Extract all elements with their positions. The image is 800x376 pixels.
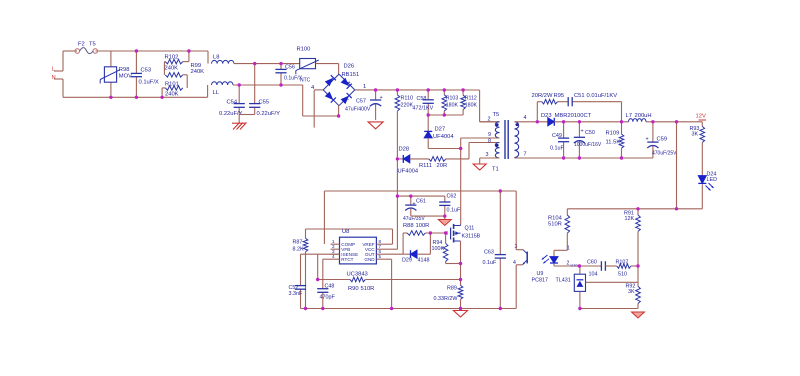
svg-text:0.01uF/1KV: 0.01uF/1KV (587, 93, 618, 99)
svg-text:1: 1 (567, 246, 570, 252)
svg-text:470pF: 470pF (320, 295, 336, 301)
svg-text:104: 104 (589, 272, 598, 278)
optocoupler light arrows (542, 255, 548, 260)
svg-text:UC3843: UC3843 (347, 272, 368, 278)
svg-text:L7: L7 (626, 113, 632, 119)
wire top AC line (63, 50, 77, 52)
wire LL output line (233, 84, 303, 86)
svg-text:C61: C61 (416, 199, 426, 205)
svg-text:0.22uF/Y: 0.22uF/Y (257, 111, 281, 117)
resistor R91 12K (637, 209, 639, 215)
svg-text:2: 2 (567, 261, 570, 267)
svg-text:GND: GND (364, 257, 375, 262)
svg-text:R103: R103 (446, 96, 459, 102)
varistor R98 MOV (110, 51, 112, 67)
wire opto collector (515, 191, 517, 250)
power ground (TL431/R92) (632, 312, 645, 318)
inductor LL (212, 82, 234, 85)
diode D27 UF4004 (clamp) (427, 115, 429, 131)
capacitor C51 0.01uF/1KV (snubber) (558, 101, 569, 103)
fuse F2 (75, 49, 80, 54)
svg-text:1000uF/16V: 1000uF/16V (574, 142, 602, 148)
svg-text:240K: 240K (165, 66, 179, 72)
resistor R88 100R (gate) (407, 231, 425, 236)
diode D29 4148 (gate speedup) (403, 253, 410, 255)
svg-text:5: 5 (379, 254, 382, 259)
svg-text:R107: R107 (616, 260, 629, 266)
wire bridge AC bottom (from LL) (302, 85, 304, 116)
svg-text:N: N (52, 75, 56, 81)
svg-text:-: - (348, 97, 350, 103)
thermistor R100 NTC (300, 59, 316, 69)
svg-text:U10: U10 (571, 264, 578, 268)
transformer core (504, 120, 506, 159)
wire ISENSE line with R90 (301, 253, 340, 255)
resistor R111 20R (429, 157, 446, 162)
svg-text:R112: R112 (465, 96, 477, 102)
svg-text:+: + (380, 95, 383, 101)
U8 pin stubs and numbers (331, 243, 340, 245)
svg-text:+: + (413, 202, 416, 208)
svg-text:T1: T1 (492, 167, 499, 173)
wire pin 3 to ground (480, 157, 500, 159)
svg-text:F2: F2 (78, 42, 85, 48)
svg-text:4148: 4148 (418, 258, 430, 264)
wire L8 output line (234, 63, 300, 65)
svg-text:C49: C49 (552, 133, 562, 139)
wire primary ground rail (301, 308, 517, 310)
svg-text:+: + (581, 129, 584, 135)
svg-text:20R/2W: 20R/2W (532, 93, 553, 99)
svg-text:470uF/25V: 470uF/25V (652, 151, 677, 157)
resistor R101 240K (165, 86, 183, 91)
svg-text:240K: 240K (191, 69, 205, 75)
wire VCC rail (397, 195, 444, 197)
wire 12V to feedback rail (676, 122, 678, 209)
capacitor C62 0.1uF (444, 196, 446, 202)
wire secondary pin 4 line (515, 121, 548, 123)
svg-text:180K: 180K (465, 103, 478, 109)
wire C61/C62 ground link (411, 215, 445, 217)
resistor R107 510 (617, 264, 631, 269)
transformer T1 aux winding (pins 8-3) (495, 143, 499, 159)
capacitor C58 472/1KV (clamp) (427, 90, 429, 100)
svg-text:7: 7 (524, 152, 527, 158)
wire OUT to gate network (386, 253, 404, 255)
resistor R90 510R (350, 277, 365, 282)
inductor L8 (212, 60, 235, 63)
snubber left leg wire (536, 102, 538, 122)
svg-text:D26: D26 (344, 64, 355, 70)
svg-text:R88: R88 (403, 223, 414, 229)
transformer T1 secondary winding (pins 4-7) (515, 122, 519, 158)
resistor R92 3K (636, 286, 641, 303)
optocoupler U9 PC817 LED (553, 250, 555, 256)
transformer T1 primary winding (pins 2-9) (480, 121, 500, 123)
capacitor C55 0.22uF/Y (254, 64, 256, 104)
resistor R110 220K (startup) (396, 90, 398, 95)
resistor R103 180K (clamp) (443, 90, 445, 95)
svg-text:C48: C48 (325, 284, 335, 290)
resistor R109 11.5K (621, 122, 623, 134)
snubber right leg wire (621, 102, 623, 122)
resistor R94 100K (gate-source) (445, 233, 447, 243)
wire opto emitter (515, 265, 517, 309)
svg-text:3K: 3K (692, 132, 699, 138)
wire clamp bottom node (428, 114, 463, 116)
svg-text:12K: 12K (625, 216, 635, 222)
capacitor C50 1000uF/16V (578, 122, 580, 138)
shunt regulator TL431 (579, 266, 581, 274)
svg-text:D29: D29 (402, 258, 412, 264)
svg-text:R100: R100 (297, 47, 311, 53)
svg-text:R101: R101 (165, 81, 179, 87)
svg-text:U8: U8 (342, 229, 349, 235)
svg-text:R89: R89 (447, 286, 457, 292)
wire R104 to opto LED (554, 249, 567, 251)
capacitor C53 X-cap (135, 51, 137, 73)
inductor L7 200uH (629, 119, 647, 122)
svg-text:MBR20100CT: MBR20100CT (555, 113, 592, 119)
svg-text:C60: C60 (587, 260, 597, 266)
capacitor C54 0.22uF/Y (238, 85, 240, 104)
svg-text:180K: 180K (446, 103, 459, 109)
wire D27 anode to drain node (428, 148, 461, 150)
svg-text:R109: R109 (606, 131, 620, 137)
svg-text:240K: 240K (165, 92, 179, 98)
svg-text:0.1uF: 0.1uF (483, 260, 497, 266)
wire pin 9 to drain (461, 137, 500, 139)
svg-text:T5: T5 (493, 112, 500, 118)
junction dots (135, 49, 138, 52)
wire GND pin to rail (386, 258, 392, 260)
svg-text:C56: C56 (285, 65, 295, 71)
resistor R99 240K (middle of bleeder chain) (165, 73, 183, 78)
svg-text:C63: C63 (484, 250, 494, 256)
power ground (C61/C62) (438, 220, 451, 226)
earth ground (chassis) (233, 123, 240, 130)
svg-text:12V: 12V (696, 114, 706, 120)
svg-text:3K: 3K (628, 289, 635, 295)
svg-text:R110: R110 (401, 96, 414, 102)
svg-text:PC817: PC817 (532, 278, 548, 284)
wire opto LED cathode line (554, 265, 601, 267)
svg-text:47uF/35V: 47uF/35V (403, 216, 425, 222)
svg-text:472/1KV: 472/1KV (413, 106, 434, 112)
svg-text:C51: C51 (574, 93, 585, 99)
svg-text:LL: LL (213, 90, 220, 96)
power ground (C57) (368, 122, 383, 129)
wire TL431 anode to ground (579, 291, 581, 308)
wire left input verticals (62, 51, 64, 71)
svg-text:200uH: 200uH (635, 113, 652, 119)
wire bridge left pin 4 stub (dangling) (314, 89, 323, 91)
svg-text:C53: C53 (141, 68, 152, 74)
svg-text:TL431: TL431 (556, 278, 571, 284)
svg-text:C59: C59 (657, 137, 668, 143)
svg-text:R98: R98 (119, 67, 130, 73)
svg-text:3.3nF: 3.3nF (289, 291, 303, 297)
svg-text:R95: R95 (554, 93, 565, 99)
svg-text:3: 3 (486, 152, 489, 158)
wire COMP-opto line (324, 190, 516, 192)
svg-text:K3115B: K3115B (462, 234, 481, 240)
svg-text:R87: R87 (293, 240, 303, 246)
wire VCC vertical from startup node (396, 159, 398, 249)
bridge rectifier D26 RB151 (323, 74, 339, 90)
transformer polarity dots and labels (496, 123, 499, 126)
capacitor C59 470uF/25V (652, 122, 654, 142)
optocoupler U9 PC817 phototransistor (516, 249, 523, 251)
capacitor C48 470pF (322, 259, 324, 289)
svg-text:LED: LED (707, 177, 718, 183)
MOSFET Q11 K3115B (445, 231, 448, 235)
svg-text:4: 4 (513, 260, 516, 266)
resistor R112 180K (clamp) (462, 90, 464, 95)
svg-text:Q11: Q11 (465, 226, 475, 232)
resistor R89 0.33R/2W (sense) (458, 285, 463, 299)
svg-text:0.1uF: 0.1uF (550, 146, 564, 152)
svg-text:+: + (646, 137, 649, 143)
svg-text:D27: D27 (435, 127, 446, 133)
resistor R104 510R (566, 209, 568, 215)
svg-text:+: + (348, 80, 351, 86)
svg-text:UF4004: UF4004 (398, 169, 419, 175)
svg-text:2: 2 (488, 117, 491, 123)
diode D23 MBR20100CT (548, 118, 555, 126)
svg-text:510R: 510R (361, 286, 375, 292)
svg-text:0.33R/2W: 0.33R/2W (434, 296, 459, 302)
svg-text:NTC: NTC (300, 78, 311, 84)
svg-text:RB151: RB151 (342, 72, 360, 78)
IC U8 UC3843 (340, 237, 377, 264)
svg-text:0.1uF/X: 0.1uF/X (139, 80, 159, 86)
resistor R93 3K (701, 122, 703, 127)
wire DC+ bus (355, 89, 480, 91)
svg-text:C57: C57 (356, 99, 366, 105)
svg-text:C62: C62 (447, 194, 457, 200)
svg-text:D23: D23 (541, 113, 552, 119)
power ground (R89 sense) (454, 311, 468, 318)
svg-text:20R: 20R (437, 163, 448, 169)
capacitor C57 47uF/400V (375, 90, 377, 100)
svg-text:1: 1 (363, 84, 366, 90)
svg-text:C50: C50 (585, 130, 595, 136)
svg-text:4: 4 (524, 115, 527, 121)
svg-text:U9: U9 (537, 271, 544, 277)
wire bottom AC line (63, 96, 208, 98)
svg-text:C54: C54 (227, 100, 238, 106)
wire VREF line (306, 228, 393, 230)
wire 12V output line (554, 121, 628, 123)
svg-text:0.1uF: 0.1uF (447, 208, 461, 214)
resistor R95 20R/2W (snubber) (542, 99, 558, 104)
capacitor C61 47uF/35V (410, 196, 412, 205)
svg-text:C58: C58 (417, 96, 427, 102)
svg-text:R111: R111 (419, 163, 432, 169)
svg-text:510: 510 (618, 272, 627, 278)
svg-text:11.5K: 11.5K (606, 140, 621, 146)
svg-text:C55: C55 (259, 100, 270, 106)
svg-text:R90: R90 (348, 286, 359, 292)
capacitor C49 0.1uF (563, 122, 565, 138)
wire NTC to bridge (316, 63, 339, 65)
svg-text:100K: 100K (432, 246, 445, 252)
capacitor C56 0.1uF/X (280, 64, 282, 70)
capacitor C60 104 (600, 261, 602, 271)
svg-text:9: 9 (488, 132, 491, 138)
svg-text:L8: L8 (213, 55, 219, 61)
resistor R102 240K (188, 51, 190, 62)
wire Y-cap common (239, 114, 255, 116)
svg-text:8.2K: 8.2K (293, 247, 304, 253)
wire secondary return (pin 7) (514, 157, 516, 160)
svg-text:RTCT: RTCT (341, 257, 353, 262)
capacitor C52 3.3nF (300, 254, 302, 285)
wire TL431 ref (586, 281, 639, 283)
svg-text:MOV: MOV (119, 74, 132, 80)
svg-text:T5: T5 (89, 42, 96, 48)
svg-text:510R: 510R (548, 222, 562, 228)
LED D24 (698, 176, 706, 184)
svg-text:100R: 100R (416, 223, 430, 229)
svg-text:R102: R102 (165, 55, 179, 61)
svg-text:8: 8 (488, 139, 491, 145)
wire RTCT stub (323, 258, 331, 260)
svg-text:47uF/400V: 47uF/400V (345, 107, 371, 113)
svg-text:D28: D28 (399, 147, 410, 153)
wire aux winding pin 8 to R111 (446, 158, 469, 160)
svg-text:UF4004: UF4004 (433, 134, 454, 140)
resistor R87 8.2K (305, 229, 307, 238)
diode D28 UF4004 (VCC rectifier) (397, 158, 403, 160)
capacitor C63 0.1uF (Y-cap) (499, 191, 501, 255)
wire feedback 12V rail (567, 208, 702, 210)
power ground (T1 pin 3) (473, 164, 486, 170)
wire Q11 source down (460, 241, 462, 285)
